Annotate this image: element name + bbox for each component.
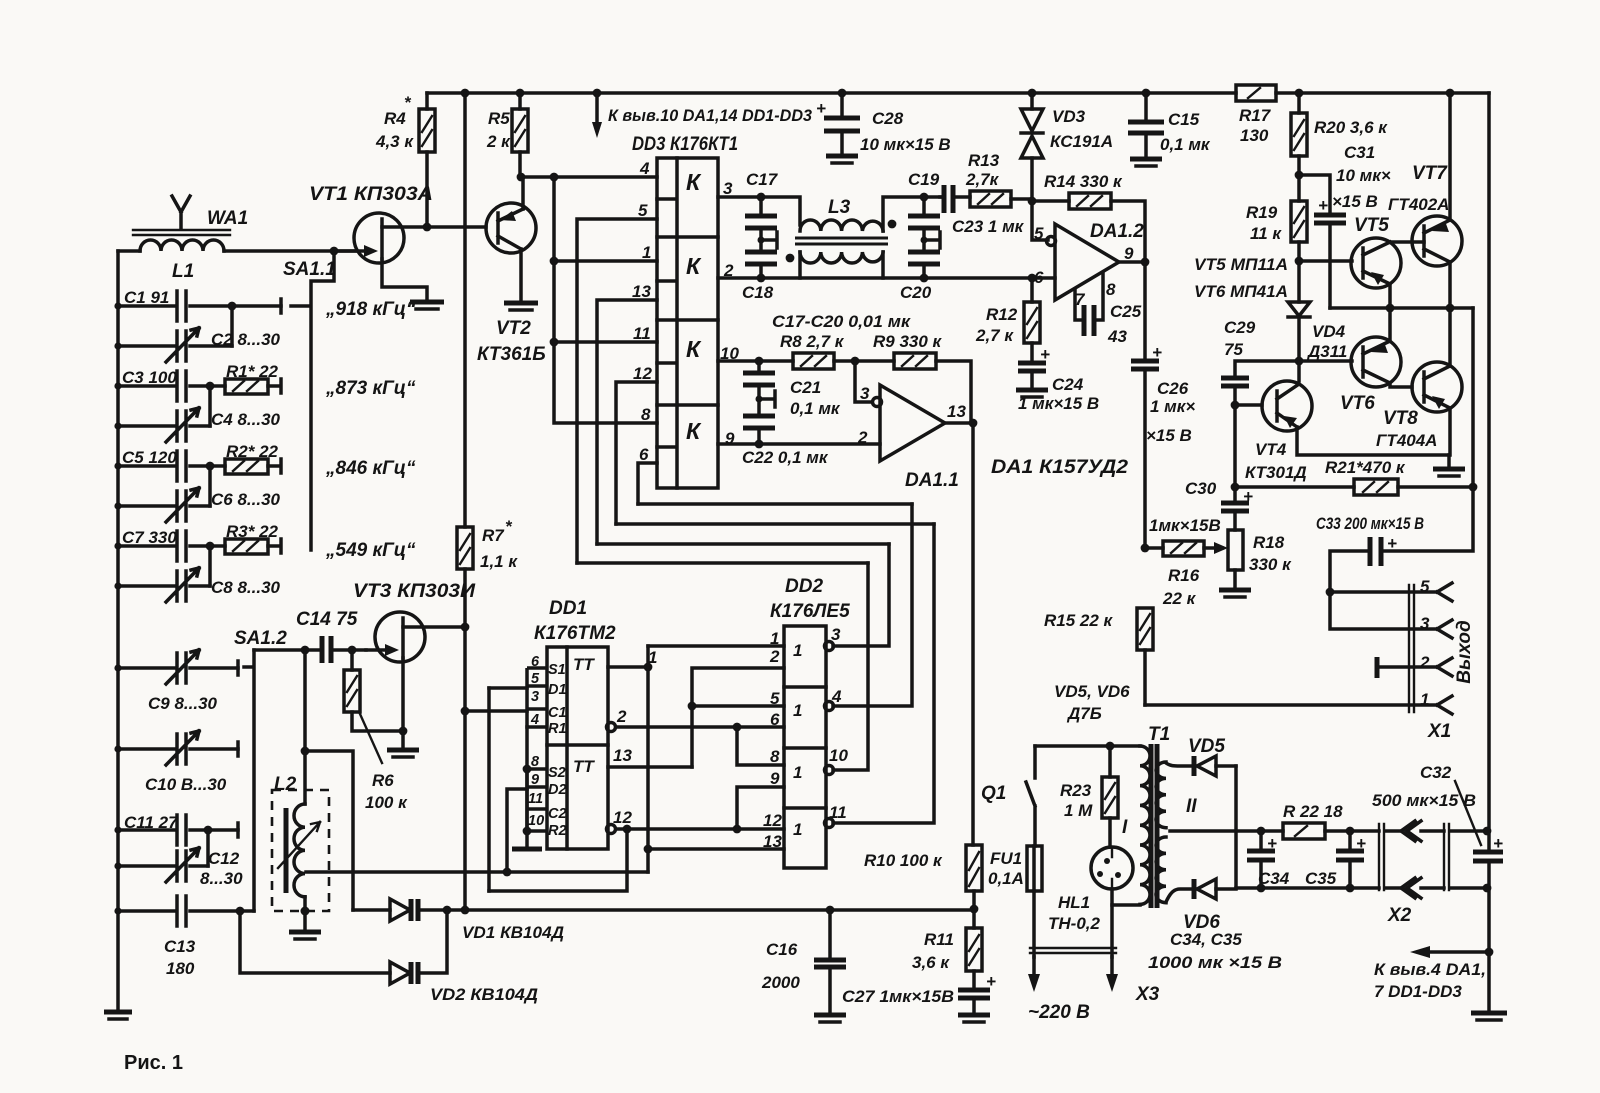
T1 core (1151, 744, 1157, 908)
junction: C18 bottom (757, 274, 766, 283)
svg-text:C19: C19 (908, 170, 940, 189)
resistor R16 (1163, 541, 1204, 556)
svg-text:X2: X2 (1387, 905, 1412, 926)
wire: upper secondary to VD5 (1166, 763, 1192, 766)
svg-text:VT2: VT2 (496, 318, 531, 339)
svg-text:130: 130 (1240, 126, 1269, 145)
wire: L2 tap line to DD1 net (306, 870, 648, 874)
wire: branch to VD1 (305, 751, 353, 910)
svg-text:1: 1 (793, 701, 802, 720)
diode VD5 (1192, 756, 1197, 776)
wire: DD2 pin2/5 from DD1 pin13 (692, 668, 784, 767)
capacitor C5 (118, 451, 225, 481)
wire: L2 top riser (303, 650, 307, 804)
capacitor C34 (1259, 831, 1263, 888)
capacitor C19 (922, 197, 926, 240)
svg-text:X1: X1 (1427, 721, 1451, 742)
capacitor C15 (1144, 93, 1148, 158)
DD1 output pin1 (608, 665, 648, 669)
capacitor C28 (840, 93, 844, 155)
DD2 output pin4 (825, 702, 834, 711)
svg-text:C25: C25 (1110, 302, 1142, 321)
capacitor C12 variable (118, 848, 208, 882)
junction: varactor line / R11 (970, 905, 979, 914)
svg-text:6: 6 (770, 710, 780, 729)
svg-text:2: 2 (857, 428, 868, 447)
arrow to supply note (1428, 950, 1489, 954)
junction: VD2 join (443, 906, 452, 915)
wire: to C31 (1299, 175, 1330, 308)
varicap VD2 (390, 962, 410, 984)
svg-text:L1: L1 (172, 261, 194, 282)
inductor L2 dashed box (272, 790, 329, 911)
ground: C24 (1016, 388, 1048, 393)
contact tick C10 (236, 742, 240, 756)
wire: S2/R2 ground riser (525, 727, 529, 849)
wire: R21 node up to mid rail (1471, 308, 1475, 487)
svg-text:5: 5 (531, 671, 540, 687)
ground: R18 (1219, 588, 1251, 593)
junction: bus to R1 (461, 707, 470, 716)
ground: C16 (814, 1013, 846, 1018)
svg-text:К: К (686, 169, 702, 195)
DD1 output pin13 (608, 765, 692, 769)
transistor VT7 (1412, 216, 1462, 266)
svg-text:3: 3 (723, 179, 733, 198)
junction: C22 bottom (755, 440, 764, 449)
svg-text:R14 330 к: R14 330 к (1044, 172, 1123, 191)
svg-text:VT6: VT6 (1340, 393, 1375, 414)
X2 chevrons top (1401, 821, 1421, 841)
svg-text:C22 0,1 мк: C22 0,1 мк (742, 448, 829, 467)
transformer L3 top winding (800, 220, 883, 231)
svg-text:0,1А: 0,1А (988, 869, 1024, 888)
transistor VT3 (375, 612, 425, 662)
svg-text:12: 12 (763, 811, 782, 830)
contact tick C9 (238, 661, 253, 675)
svg-text:КС191А: КС191А (1050, 132, 1113, 151)
svg-text:C26: C26 (1157, 379, 1189, 398)
junction: C20 bottom (920, 274, 929, 283)
wire: DD3 pin3 row (718, 197, 800, 225)
DD2 output pin10 (825, 766, 834, 775)
svg-text:R15 22 к: R15 22 к (1044, 611, 1114, 630)
capacitor C16 (828, 910, 832, 1014)
transistor VT6 (1351, 337, 1401, 387)
svg-text:2: 2 (769, 647, 780, 666)
junction: R20/R19/C31 (1295, 171, 1304, 180)
feedback riser pin3 (487, 688, 491, 891)
svg-text:+: + (1152, 343, 1162, 362)
svg-text:ГТ404А: ГТ404А (1376, 431, 1437, 450)
junction: VT5 base node (1295, 257, 1304, 266)
capacitor C32 (1473, 852, 1503, 861)
ground: DD1 (512, 847, 542, 852)
wire: HL1 bottom to primary bottom (1112, 889, 1140, 905)
resistor R12 (1024, 302, 1040, 343)
svg-text:R3* 22: R3* 22 (226, 522, 279, 541)
inductor L2 core (284, 808, 289, 893)
wire: DD2 pin1 input (648, 644, 784, 648)
svg-text:R8 2,7 к: R8 2,7 к (780, 332, 845, 351)
svg-text:43: 43 (1107, 327, 1127, 346)
wire: VT2 collector to ground (519, 249, 523, 302)
junction: R4 bottom (423, 223, 432, 232)
capacitor C22 (757, 399, 761, 444)
junction: R13/R14/VD3 node (1028, 197, 1037, 206)
svg-text:R21*470 к: R21*470 к (1325, 458, 1406, 477)
svg-text:II: II (1186, 796, 1197, 817)
switch SA1.2 common (252, 650, 256, 911)
svg-text:5: 5 (638, 201, 648, 220)
capacitor C8 variable (118, 568, 210, 602)
svg-text:R1* 22: R1* 22 (226, 362, 279, 381)
junction: C26/R15/R16 node (1141, 544, 1150, 553)
svg-text:DD2: DD2 (785, 576, 823, 597)
wire: R1 to contact (268, 379, 281, 393)
svg-text:C33 200 мк×15 В: C33 200 мк×15 В (1316, 514, 1424, 533)
plug prong arrows (1032, 957, 1036, 975)
capacitor C11 (118, 815, 238, 845)
X1 pin5 contact (1437, 583, 1452, 601)
svg-text:C4 8...30: C4 8...30 (211, 410, 281, 429)
svg-text:11 к: 11 к (1250, 224, 1282, 243)
svg-text:R23: R23 (1060, 781, 1092, 800)
capacitor C10 variable (118, 731, 238, 765)
wire: Q1 top to T1 primary (1035, 744, 1140, 748)
svg-text:C21: C21 (790, 378, 821, 397)
DD1 output pin12 (inverted) (607, 825, 616, 834)
junction: C17 top (757, 193, 766, 202)
junction: C7/C8 (206, 542, 215, 551)
wire: to VT5 base (1299, 259, 1352, 263)
svg-text:+: + (1387, 534, 1397, 553)
svg-text:2: 2 (1419, 653, 1430, 672)
svg-text:11: 11 (633, 324, 651, 343)
svg-text:4,3 к: 4,3 к (375, 132, 414, 151)
svg-text:R 22 18: R 22 18 (1283, 802, 1343, 821)
svg-text:C17-C20 0,01 мк: C17-C20 0,01 мк (772, 312, 911, 331)
svg-text:C8 8...30: C8 8...30 (211, 578, 281, 597)
wire: R21 row (1235, 485, 1473, 489)
svg-text:8: 8 (1106, 280, 1116, 299)
inductor L1 core (133, 230, 230, 235)
wire: node to VT6 base (1299, 359, 1352, 363)
svg-text:R11: R11 (924, 930, 954, 949)
svg-text:8: 8 (641, 405, 651, 424)
capacitor C9 variable (118, 650, 238, 684)
wire: DD2 pin8 branch (737, 727, 784, 765)
wire: DD3 pin10 row (R8 input) (718, 361, 971, 423)
svg-text:VT8: VT8 (1383, 408, 1418, 429)
svg-text:3: 3 (531, 689, 539, 705)
svg-text:×15 В: ×15 В (1332, 192, 1378, 211)
junction: C5/C6 (206, 462, 215, 471)
wire: pin4 to DD3 pin6 bus (638, 502, 912, 506)
svg-text:ГТ402А: ГТ402А (1388, 195, 1449, 214)
svg-text:1: 1 (642, 243, 651, 262)
wire: VT4 base node down to C30 (1233, 405, 1237, 487)
wire: long bus from rail through R7 (463, 93, 467, 911)
svg-text:VT6 МП41А: VT6 МП41А (1194, 282, 1288, 301)
junction: C1/C2 (228, 302, 237, 311)
svg-text:+: + (1318, 196, 1328, 215)
wire: node to C29 (1235, 361, 1299, 405)
junction: C19 top (920, 193, 929, 202)
svg-text:12: 12 (613, 808, 632, 827)
R6 label leader (360, 714, 382, 763)
VT1 gate arrow (364, 245, 378, 257)
wire: minus rail (1236, 886, 1487, 890)
ground: L2 (289, 930, 321, 935)
resistor R9 (894, 353, 936, 369)
svg-text:I: I (1122, 817, 1128, 838)
capacitor C6 variable (118, 488, 210, 522)
C17/C18 midpoint stub (761, 232, 777, 248)
svg-text:VD5, VD6: VD5, VD6 (1054, 682, 1130, 701)
svg-text:330 к: 330 к (1249, 555, 1292, 574)
svg-text:К: К (686, 418, 702, 444)
VT3 gate arrow (385, 644, 399, 656)
svg-text:10 мк×: 10 мк× (1336, 166, 1391, 185)
svg-text:D2: D2 (548, 782, 567, 798)
svg-text:4: 4 (530, 712, 539, 728)
svg-text:C35: C35 (1305, 869, 1337, 888)
wire: L1 left end to left bus (118, 249, 140, 253)
capacitor C13 (118, 896, 254, 926)
transformer T1 secondary lower (1156, 837, 1166, 903)
wire: pin10 to DD3 pin5 bus (577, 561, 868, 565)
svg-text:R18: R18 (1253, 533, 1285, 552)
varicap VD1 (390, 899, 410, 921)
svg-text:C3 100: C3 100 (122, 368, 177, 387)
capacitor C4 variable (118, 408, 210, 442)
svg-text:10 мк×15 В: 10 мк×15 В (860, 135, 951, 154)
wire: VT5 emitter down to mid rail (1388, 284, 1392, 308)
svg-text:C34: C34 (1258, 869, 1290, 888)
svg-text:+: + (1356, 834, 1366, 853)
svg-text:C7 330: C7 330 (122, 528, 177, 547)
svg-text:6: 6 (531, 654, 540, 670)
mains cord double line (1030, 948, 1116, 953)
svg-text:1: 1 (793, 763, 802, 782)
C21/C22 midpoint stub (759, 391, 775, 407)
junction: L2 top / C14 (301, 646, 310, 655)
transformer T1 primary (1140, 746, 1150, 904)
junction: C30 node (1231, 483, 1240, 492)
resistor R4 (419, 109, 435, 152)
wire: +9V top rail (427, 91, 1489, 95)
svg-text:13: 13 (632, 282, 651, 301)
wire: DD3 pin13 bus down (597, 300, 657, 544)
svg-text:1: 1 (793, 641, 802, 660)
wire: DD3 pin6 bus down (638, 463, 657, 504)
svg-text:2000: 2000 (761, 973, 800, 992)
svg-text:C2: C2 (548, 806, 567, 822)
svg-text:4: 4 (639, 159, 650, 178)
junction: supply note tap (1485, 948, 1494, 957)
junction: DA1.1 output (969, 419, 978, 428)
wire: R10 to R11 (972, 891, 976, 928)
ground: VT2 (504, 301, 538, 306)
contact tick row 918 (281, 299, 308, 313)
svg-text:C13: C13 (164, 937, 196, 956)
resistor R15 (1137, 608, 1153, 650)
svg-text:VT7: VT7 (1412, 163, 1448, 184)
wire: VT6 emitter to VT8 base (1390, 383, 1412, 387)
wire: varactor control line (418, 908, 974, 912)
svg-text:R2: R2 (548, 823, 567, 839)
resistor R10 (966, 845, 982, 891)
capacitor C29 (1221, 378, 1249, 386)
svg-text:1 мк×: 1 мк× (1150, 397, 1195, 416)
svg-text:3,6 к: 3,6 к (912, 953, 950, 972)
svg-text:DA1.2: DA1.2 (1090, 221, 1144, 242)
ground: C27 (958, 1013, 990, 1018)
capacitor C20 (922, 240, 926, 278)
svg-text:C31: C31 (1344, 143, 1375, 162)
svg-text:VT5: VT5 (1354, 215, 1389, 236)
svg-text:VD2 КВ104Д: VD2 КВ104Д (430, 985, 538, 1004)
inductor L1 (140, 240, 224, 251)
svg-text:*: * (505, 517, 513, 536)
transformer T1 secondary upper (1156, 762, 1166, 828)
svg-text:R4: R4 (384, 109, 406, 128)
right border wire bottom (1487, 861, 1491, 1013)
junction: VD1 branch (301, 747, 310, 756)
svg-text:TT: TT (573, 757, 595, 776)
svg-text:C17: C17 (746, 170, 779, 189)
ground: C28 (826, 154, 858, 159)
C32 leader line (1455, 781, 1481, 845)
DD3 cell letters K (686, 169, 702, 444)
down-arrow to supply note (595, 93, 599, 126)
svg-text:11: 11 (528, 791, 543, 807)
svg-text:2,7 к: 2,7 к (975, 326, 1014, 345)
wire: DD3 pin5 bus down (577, 219, 657, 563)
wire: secondary mid-tap plus rail (1170, 829, 1487, 833)
junction: L2 bottom (301, 907, 310, 916)
op-amp DA1.1 (880, 385, 945, 461)
svg-text:Рис. 1: Рис. 1 (124, 1052, 183, 1074)
svg-text:1000 мк ×15 В: 1000 мк ×15 В (1148, 953, 1282, 972)
X1 pin2 ground bar (1375, 657, 1380, 678)
svg-text:+: + (1243, 487, 1253, 506)
svg-text:8: 8 (531, 754, 540, 770)
wire: VT1 source loop (382, 259, 427, 301)
wire: DA1.1 output down to R10 (945, 423, 973, 845)
svg-text:„918 кГц“: „918 кГц“ (325, 299, 416, 320)
wire: C2 input riser (507, 789, 527, 872)
wire: VT4 base from C26 node (1235, 403, 1262, 407)
svg-text:К: К (686, 336, 702, 362)
svg-text:X3: X3 (1135, 984, 1160, 1005)
ground: right border (1471, 1011, 1507, 1016)
ground: left bus bottom (104, 1010, 132, 1015)
svg-text:9: 9 (1124, 244, 1134, 263)
wire: L3 winding ends to pin2 row (800, 252, 883, 278)
svg-text:„846 кГц“: „846 кГц“ (325, 458, 416, 479)
junction: plus rail to border (1483, 827, 1492, 836)
svg-text:T1: T1 (1148, 724, 1170, 745)
resistor R21 (1354, 479, 1398, 495)
svg-text:C14 75: C14 75 (296, 609, 358, 630)
wire: SA1.2 to C14 (254, 648, 320, 652)
svg-text:1мк×15В: 1мк×15В (1149, 516, 1221, 535)
wire: L3 top right to C19 (883, 197, 940, 231)
svg-text:180: 180 (166, 959, 195, 978)
resistor R22 (1283, 823, 1325, 839)
svg-text:R6: R6 (372, 771, 394, 790)
junction: minus rail to border (1483, 884, 1492, 893)
wire: C2 to C1 row (230, 306, 234, 346)
wire: C1 feedback loop (489, 829, 627, 891)
svg-text:КТ361Б: КТ361Б (477, 344, 546, 365)
svg-text:10: 10 (528, 813, 544, 829)
junction: C1 feedback tap (623, 825, 632, 834)
wire: DA1.2 output down through C26 (1119, 262, 1145, 548)
svg-text:R12: R12 (986, 305, 1018, 324)
svg-text:R16: R16 (1168, 566, 1200, 585)
svg-text:+: + (986, 972, 996, 991)
capacitor C1 (118, 291, 281, 321)
svg-text:C5 120: C5 120 (122, 448, 177, 467)
X2 chevrons bottom (1401, 878, 1421, 898)
wire: VT8 collector up to mid rail (1448, 308, 1452, 366)
wire: DA1.1 pin3 from R8/R9 (855, 361, 872, 402)
antenna WA1 (172, 196, 190, 229)
svg-text:13: 13 (613, 746, 632, 765)
svg-text:C1: C1 (548, 705, 567, 721)
resistor R20 (1291, 113, 1307, 156)
wire: C12 to C11 row (206, 830, 210, 866)
capacitor C17 (759, 197, 763, 240)
svg-text:5: 5 (1034, 224, 1044, 243)
X1 pin3 contact (1437, 620, 1452, 638)
DD1 inner pin names (528, 654, 567, 839)
svg-text:R5: R5 (488, 109, 510, 128)
svg-text:C18: C18 (742, 283, 774, 302)
svg-text:3: 3 (860, 384, 870, 403)
capacitor C14 (322, 636, 331, 663)
contact tick C11 (236, 823, 240, 837)
svg-text:К выв.10 DA1,14 DD1-DD3: К выв.10 DA1,14 DD1-DD3 (608, 106, 813, 125)
wire: DD2 pin13 input (648, 847, 784, 851)
svg-text:+: + (816, 99, 826, 118)
zener VD3 (1030, 93, 1034, 201)
junction: C3/C4 (206, 382, 215, 391)
capacitor C23 in series (944, 185, 953, 213)
right border wire top (1487, 93, 1491, 852)
svg-text:0,1 мк: 0,1 мк (1160, 135, 1211, 154)
svg-text:R10 100 к: R10 100 к (864, 851, 943, 870)
transformer L3 bottom winding (800, 252, 883, 263)
wire: VT1 drain to VT2 base (382, 225, 486, 229)
capacitor C2 variable (118, 328, 232, 362)
svg-text:13: 13 (947, 402, 966, 421)
svg-text:К176ТМ2: К176ТМ2 (534, 623, 616, 644)
svg-text:C24: C24 (1052, 375, 1084, 394)
svg-text:D1: D1 (548, 682, 567, 698)
svg-text:3: 3 (1420, 614, 1430, 633)
svg-text:VT1 КП303А: VT1 КП303А (309, 184, 433, 205)
svg-text:C29: C29 (1224, 318, 1256, 337)
junction: rail taps (461, 89, 470, 98)
VT2 collector (498, 236, 521, 249)
capacitor C33 (1370, 537, 1381, 566)
resistor R6 (344, 670, 360, 712)
junction: VD4/C29/VT6 base/VT4 collector (1295, 357, 1304, 366)
